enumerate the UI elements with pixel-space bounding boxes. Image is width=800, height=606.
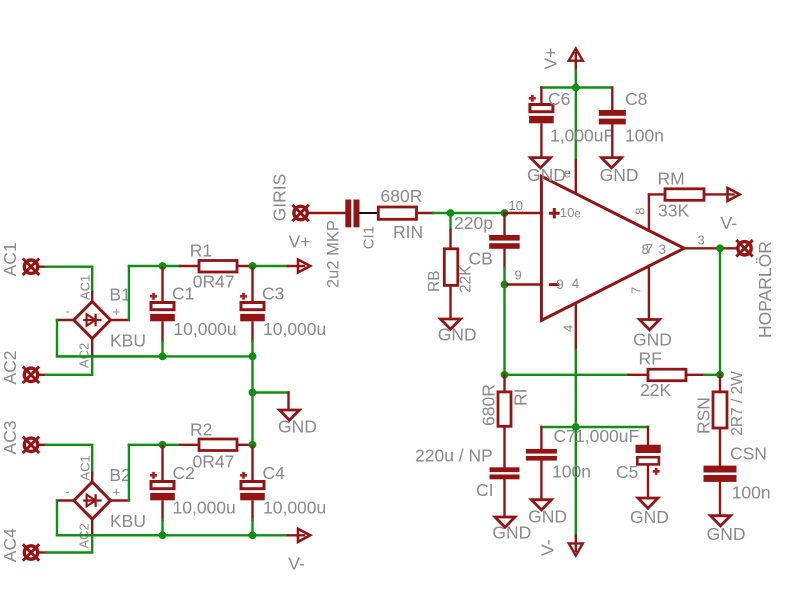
svg-text:GIRIS: GIRIS bbox=[270, 174, 290, 222]
svg-text:33K: 33K bbox=[658, 200, 689, 220]
svg-text:10,000u: 10,000u bbox=[173, 319, 236, 339]
capacitor C6 bbox=[540, 88, 542, 105]
op-amp minus mark bbox=[549, 283, 559, 286]
svg-text:C8: C8 bbox=[625, 89, 647, 109]
resistor RM bbox=[665, 189, 704, 201]
wire output down to RF row bbox=[719, 248, 721, 374]
wire C5 to ground bbox=[647, 465, 649, 498]
pad HOPARLOR bbox=[736, 240, 752, 256]
wire V+ to decoupling row bbox=[575, 70, 577, 88]
svg-text:680R: 680R bbox=[479, 384, 499, 426]
svg-text:AC3: AC3 bbox=[0, 420, 20, 454]
svg-text:220u / NP: 220u / NP bbox=[415, 446, 493, 466]
svg-text:AC1: AC1 bbox=[78, 455, 93, 480]
svg-text:V-: V- bbox=[288, 554, 305, 574]
node R2 right junction bbox=[249, 441, 257, 449]
svg-text:10,000u: 10,000u bbox=[173, 498, 236, 518]
wire RM to V- bbox=[704, 193, 734, 195]
wire V- rail bottom bbox=[57, 534, 288, 536]
svg-text:GND: GND bbox=[438, 325, 477, 345]
capacitor C1 bbox=[161, 268, 163, 303]
svg-text:9: 9 bbox=[515, 268, 522, 283]
capacitor C4 bbox=[251, 446, 253, 482]
resistor R2 bbox=[199, 439, 237, 451]
wire output pin 3 bbox=[684, 247, 737, 249]
svg-text:2u2 MKP: 2u2 MKP bbox=[325, 220, 343, 288]
supply V- arrow bottom bbox=[575, 535, 577, 551]
node RF right junction bbox=[716, 371, 724, 379]
node output junction bbox=[716, 244, 724, 252]
svg-text:22K: 22K bbox=[640, 380, 671, 400]
svg-text:100n: 100n bbox=[625, 126, 664, 146]
svg-text:10,000u: 10,000u bbox=[263, 498, 326, 518]
bridge rectifier B2 bbox=[74, 482, 111, 519]
wire V- decoupling row bbox=[541, 426, 648, 428]
ground under CI bbox=[495, 517, 515, 527]
svg-text:CB: CB bbox=[469, 249, 493, 269]
svg-text:KBU: KBU bbox=[110, 511, 146, 531]
wire pin8 to RM bbox=[649, 193, 665, 195]
resistor RIN bbox=[378, 207, 416, 219]
svg-text:GND: GND bbox=[278, 417, 317, 437]
capacitor CI bbox=[503, 426, 505, 467]
capacitor C8 bbox=[611, 88, 613, 111]
node R1 left junction bbox=[159, 262, 167, 270]
svg-text:AC4: AC4 bbox=[0, 528, 20, 562]
svg-text:C3: C3 bbox=[262, 283, 284, 303]
svg-text:-: - bbox=[66, 304, 70, 319]
ground under C7 bbox=[531, 500, 551, 510]
wire V+ rail (R1 row) bbox=[129, 265, 180, 267]
svg-text:GND: GND bbox=[707, 524, 746, 544]
svg-text:RB: RB bbox=[426, 270, 443, 292]
svg-text:CI: CI bbox=[476, 480, 494, 500]
svg-text:e: e bbox=[574, 209, 580, 221]
svg-text:e: e bbox=[564, 166, 571, 181]
svg-text:100n: 100n bbox=[732, 482, 771, 502]
svg-text:9: 9 bbox=[556, 277, 564, 292]
svg-text:0R47: 0R47 bbox=[193, 272, 235, 292]
svg-text:B2: B2 bbox=[109, 465, 130, 485]
node pin 9 junction bbox=[501, 281, 509, 289]
svg-text:4: 4 bbox=[572, 276, 580, 291]
svg-text:V+: V+ bbox=[289, 232, 311, 252]
svg-text:RI: RI bbox=[511, 389, 531, 407]
svg-text:RM: RM bbox=[658, 169, 685, 189]
wire GIRIS to CI1 bbox=[308, 212, 345, 214]
op-amp U1 triangle bbox=[541, 176, 684, 320]
svg-text:10,000u: 10,000u bbox=[263, 319, 326, 339]
resistor R1 bbox=[199, 261, 237, 273]
wire pin 8 up bbox=[648, 194, 650, 230]
bridge rectifier B1 bbox=[74, 301, 111, 338]
pad GIRIS bbox=[292, 205, 308, 221]
svg-text:10: 10 bbox=[560, 205, 575, 220]
wire B2 plus to R2 rail bbox=[111, 499, 129, 501]
wire B1 plus to R1 rail bbox=[111, 319, 129, 321]
svg-text:HOPARLÖR: HOPARLÖR bbox=[755, 241, 775, 338]
svg-text:GND: GND bbox=[528, 507, 567, 527]
node mid rail C3 bbox=[249, 353, 257, 361]
wire AC2 to B1 bbox=[39, 374, 47, 376]
svg-text:GND: GND bbox=[527, 165, 566, 185]
svg-text:RF: RF bbox=[639, 349, 662, 369]
svg-text:CSN: CSN bbox=[730, 443, 767, 463]
node R1 right junction bbox=[249, 262, 257, 270]
node V- rail C4 bbox=[249, 531, 257, 539]
wire op-amp bottom pin 4 bbox=[575, 303, 577, 350]
capacitor CB bbox=[503, 213, 505, 235]
wire AC3 to B2 bbox=[39, 444, 47, 446]
svg-text:1,000uF: 1,000uF bbox=[550, 126, 614, 146]
node B junction bbox=[501, 209, 509, 217]
svg-text:R1: R1 bbox=[190, 240, 212, 260]
ground under RB bbox=[441, 319, 461, 329]
wire RF row bbox=[505, 374, 629, 376]
svg-text:C6: C6 bbox=[548, 89, 570, 109]
wire V- net down bbox=[575, 350, 577, 536]
wire RB to ground bbox=[449, 285, 451, 319]
wire GND tap bbox=[253, 391, 289, 393]
wire R2 row bbox=[129, 444, 180, 446]
svg-text:8: 8 bbox=[632, 207, 647, 214]
svg-text:22K: 22K bbox=[458, 265, 475, 293]
svg-text:7: 7 bbox=[646, 242, 654, 257]
svg-text:GND: GND bbox=[633, 330, 672, 350]
node V- decoupling junction bbox=[572, 423, 580, 431]
ground under C8 bbox=[602, 158, 622, 168]
resistor RB bbox=[444, 249, 458, 286]
ground under C6 bbox=[531, 158, 551, 168]
svg-text:+: + bbox=[113, 484, 121, 499]
svg-text:V-: V- bbox=[721, 213, 738, 233]
svg-text:-: - bbox=[66, 484, 70, 499]
svg-text:C1: C1 bbox=[172, 283, 194, 303]
node V+ decoupling junction bbox=[572, 84, 580, 92]
pad AC4 bbox=[23, 544, 39, 560]
wire op-amp top pin V+ bbox=[575, 158, 577, 194]
svg-text:B1: B1 bbox=[109, 285, 130, 305]
supply V- arrow RM bbox=[728, 188, 740, 201]
node RF left junction bbox=[501, 371, 509, 379]
svg-text:GND: GND bbox=[630, 507, 669, 527]
node GND tap bbox=[249, 389, 257, 397]
svg-text:+: + bbox=[113, 304, 121, 319]
svg-text:C5: C5 bbox=[616, 462, 638, 482]
wire AC4 to B2 bbox=[39, 551, 47, 553]
capacitor CSN bbox=[719, 428, 721, 466]
wire RIN to node A bbox=[417, 212, 434, 214]
svg-text:GND: GND bbox=[492, 523, 531, 543]
capacitor C7 bbox=[540, 427, 542, 449]
svg-text:2R7 / 2W: 2R7 / 2W bbox=[729, 371, 746, 436]
node mid rail C1 bbox=[159, 353, 167, 361]
svg-text:GND: GND bbox=[600, 165, 639, 185]
ground under pin 7 bbox=[640, 320, 660, 330]
ground under C5 bbox=[638, 498, 658, 508]
node R2 left junction bbox=[159, 441, 167, 449]
wire pin 7 to ground bbox=[648, 266, 650, 320]
svg-text:10: 10 bbox=[509, 198, 523, 213]
pad AC2 bbox=[23, 367, 39, 383]
wire V+ down to op-amp bbox=[575, 88, 577, 158]
svg-text:1,000uF: 1,000uF bbox=[575, 426, 639, 446]
svg-text:C7: C7 bbox=[554, 426, 576, 446]
pad AC3 bbox=[23, 437, 39, 453]
svg-text:AC1: AC1 bbox=[0, 242, 20, 276]
wire pin 9 bbox=[505, 283, 542, 285]
op-amp plus mark bbox=[549, 208, 560, 218]
supply V+ arrow left section bbox=[288, 265, 304, 267]
pad AC1 bbox=[23, 259, 39, 275]
svg-text:KBU: KBU bbox=[110, 330, 146, 350]
resistor RF bbox=[648, 369, 686, 381]
svg-text:0R47: 0R47 bbox=[193, 452, 235, 472]
svg-text:680R: 680R bbox=[381, 186, 423, 206]
svg-text:220p: 220p bbox=[454, 213, 493, 233]
svg-text:V-: V- bbox=[538, 539, 558, 556]
svg-text:CI1: CI1 bbox=[361, 226, 378, 249]
svg-text:AC1: AC1 bbox=[78, 275, 93, 300]
supply V+ arrow top bbox=[569, 49, 583, 61]
ground mid GND symbol bbox=[279, 410, 299, 420]
node A junction bbox=[447, 209, 455, 217]
supply V- arrow left section bbox=[288, 534, 304, 536]
wire node A to RB bbox=[449, 213, 451, 230]
svg-text:RSN: RSN bbox=[694, 397, 714, 434]
svg-text:R2: R2 bbox=[190, 420, 212, 440]
wire decoupling row bbox=[541, 86, 612, 88]
wire node A to node B bbox=[451, 212, 505, 214]
resistor RSN bbox=[719, 375, 721, 392]
wire CI1 to RIN bbox=[360, 212, 379, 214]
wire B2 minus to V- rail bbox=[57, 499, 74, 501]
capacitor C2 bbox=[161, 446, 163, 482]
svg-text:RIN: RIN bbox=[393, 222, 423, 242]
wire mid GND rail bbox=[57, 355, 253, 357]
svg-text:C2: C2 bbox=[173, 463, 195, 483]
wire feedback node down bbox=[503, 285, 505, 375]
capacitor C5 bbox=[647, 427, 649, 445]
svg-text:7: 7 bbox=[629, 287, 644, 294]
svg-text:3: 3 bbox=[698, 233, 705, 248]
ground under CSN bbox=[711, 516, 731, 526]
svg-text:100n: 100n bbox=[552, 462, 591, 482]
wire pin 10 bbox=[505, 212, 542, 214]
svg-text:C4: C4 bbox=[263, 463, 286, 483]
capacitor CI1 bbox=[345, 200, 359, 228]
node V- rail C2 bbox=[159, 531, 167, 539]
svg-text:V+: V+ bbox=[541, 48, 561, 70]
resistor RI bbox=[503, 375, 505, 392]
wire mid rail down to R2 row bbox=[251, 356, 253, 444]
svg-text:3: 3 bbox=[659, 242, 667, 257]
wire AC1 to B1 bbox=[39, 266, 47, 268]
svg-text:4: 4 bbox=[561, 325, 576, 332]
wire B1 minus to mid rail bbox=[57, 319, 74, 321]
svg-text:AC2: AC2 bbox=[0, 350, 20, 384]
capacitor C3 bbox=[251, 268, 253, 303]
